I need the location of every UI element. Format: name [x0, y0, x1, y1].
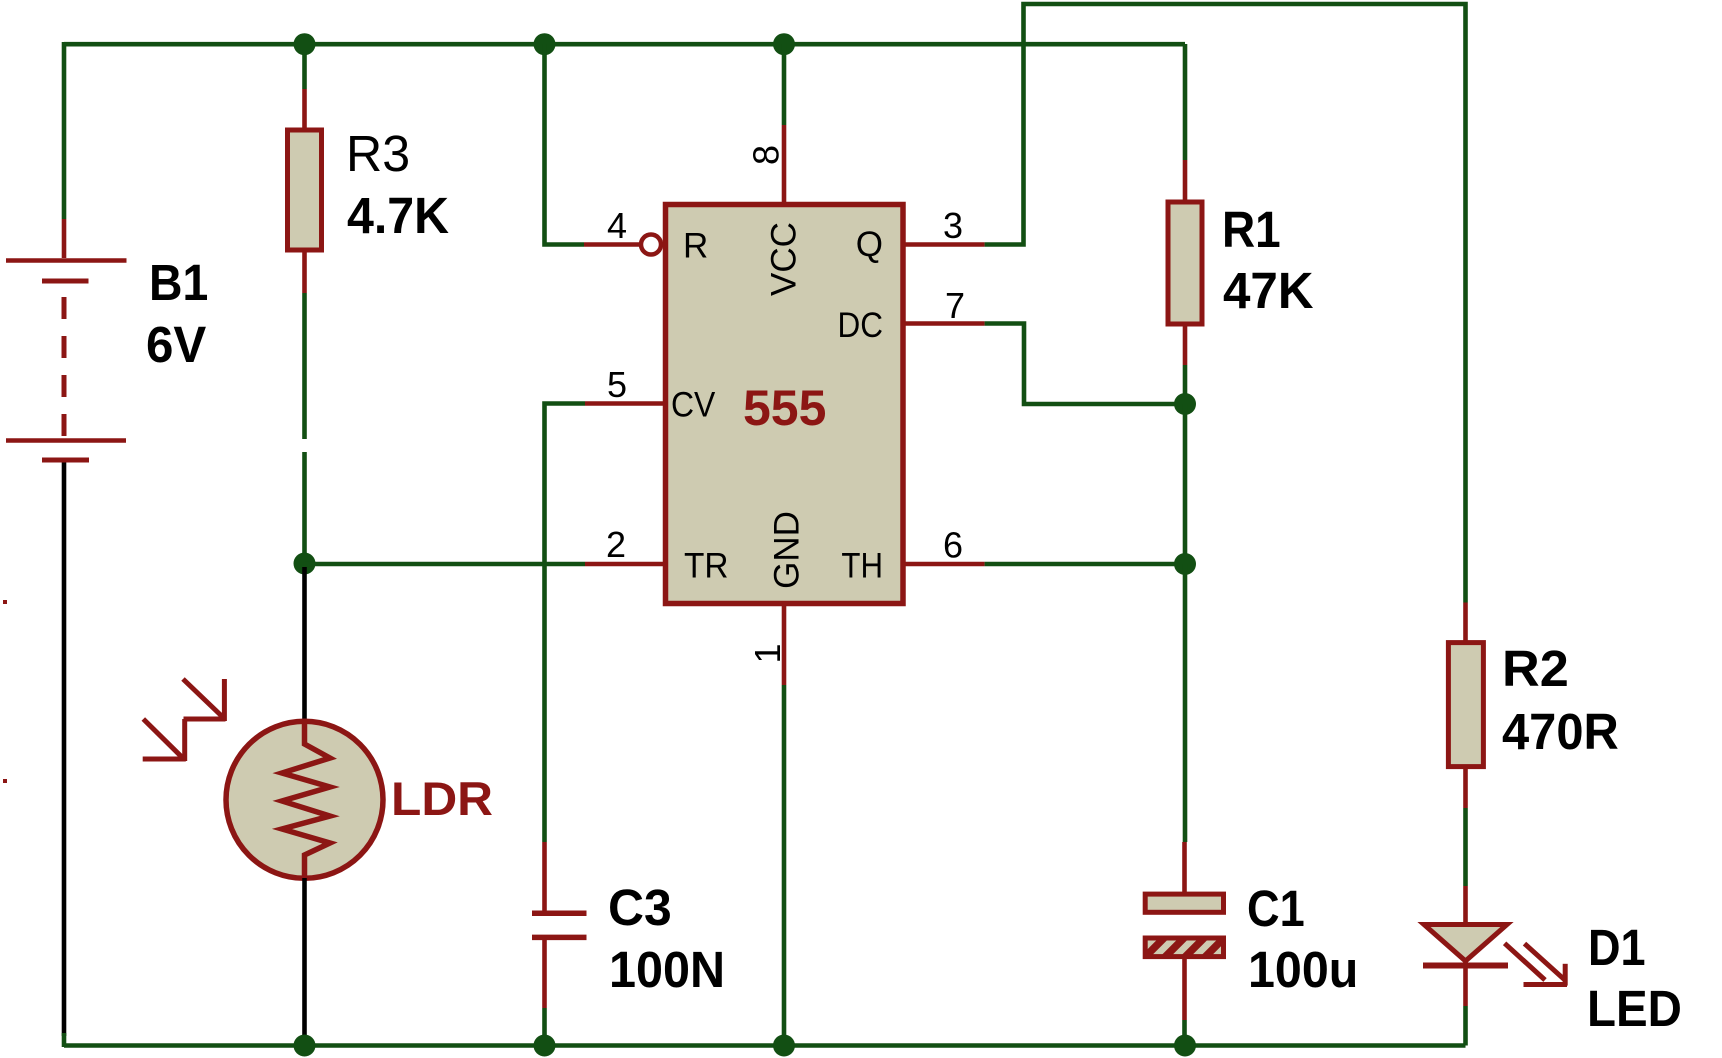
node DC junction — [1174, 393, 1196, 415]
pin name TR — [684, 547, 729, 586]
wire R3 top lead — [302, 44, 307, 130]
svg-text:VCC: VCC — [765, 222, 804, 296]
wire pin 4 (reset) — [545, 44, 643, 245]
node TR junction — [294, 553, 316, 575]
LED arrow 2 — [1525, 944, 1566, 986]
op-amp U1: 555 timer IC body — [666, 205, 904, 604]
label C1 — [1247, 880, 1305, 937]
label pin number 3 — [943, 205, 963, 246]
svg-text:R1: R1 — [1222, 201, 1281, 258]
label R2 — [1502, 640, 1569, 697]
pin name GND — [768, 511, 807, 589]
svg-text:3: 3 — [943, 205, 963, 246]
svg-text:555: 555 — [743, 380, 826, 436]
reset bubble — [641, 235, 661, 255]
svg-text:2: 2 — [606, 524, 626, 565]
wire pin 1 (GND) — [782, 604, 787, 1045]
wire LDR bottom lead (black) — [302, 878, 307, 1041]
label R1 — [1222, 201, 1281, 258]
LDR arrow 2 — [143, 719, 186, 761]
svg-text:R: R — [683, 227, 708, 266]
pin name VCC — [765, 222, 804, 296]
node top rail junction at R3 — [294, 33, 316, 55]
svg-text:470R: 470R — [1502, 703, 1619, 760]
label R3 — [346, 125, 410, 182]
label 47K — [1223, 262, 1314, 319]
resistor R2 — [1448, 643, 1483, 767]
svg-text:100N: 100N — [609, 941, 725, 998]
LDR arrow 1 — [183, 679, 226, 721]
svg-text:B1: B1 — [149, 254, 208, 311]
label pin number 7 — [945, 285, 965, 326]
wire pin 8 (VCC) — [782, 44, 787, 202]
svg-text:R3: R3 — [346, 125, 410, 182]
wire battery bottom lead (black) — [62, 463, 67, 1037]
wire TH node to C1 — [1183, 564, 1188, 842]
LDR photoresistor — [226, 721, 383, 878]
wire LDR top lead (black) — [302, 567, 307, 722]
svg-text:1: 1 — [747, 643, 788, 663]
svg-text:4: 4 — [607, 205, 627, 246]
label pin number 4 — [607, 205, 627, 246]
node bottom rail junction at C3 — [534, 1035, 556, 1057]
resistor R3 — [288, 130, 322, 250]
label pin number 2 — [606, 524, 626, 565]
pin name Q — [856, 225, 883, 264]
label 100u — [1248, 941, 1358, 998]
label pin number 8 — [746, 145, 787, 165]
pin name DC — [838, 306, 884, 345]
svg-text:TH: TH — [841, 547, 883, 586]
stray mark 1 — [3, 600, 7, 604]
label D1 — [1588, 919, 1646, 976]
pin name R — [683, 227, 708, 266]
wire pin 6 (TH) — [903, 562, 1185, 567]
LED D1 — [1423, 925, 1508, 1046]
svg-text:DC: DC — [838, 306, 884, 345]
label 470R — [1502, 703, 1619, 760]
svg-text:D1: D1 — [1588, 919, 1646, 976]
wire R1 top lead — [1183, 44, 1188, 202]
svg-text:LDR: LDR — [391, 772, 493, 825]
node TH junction — [1174, 553, 1196, 575]
label B1 — [149, 254, 208, 311]
node top rail junction at pin 8 — [773, 33, 795, 55]
svg-text:Q: Q — [856, 225, 883, 264]
resistor R1 — [1168, 202, 1202, 324]
wire R2 bottom lead — [1463, 767, 1468, 925]
svg-text:R2: R2 — [1502, 640, 1569, 697]
svg-text:100u: 100u — [1248, 941, 1358, 998]
label pin number 6 — [943, 525, 963, 566]
label 100N — [609, 941, 725, 998]
wire R3 bottom lead — [302, 250, 307, 562]
battery B1 — [6, 261, 127, 461]
svg-text:TR: TR — [684, 547, 729, 586]
wire battery top lead (maroon) — [62, 219, 67, 258]
label 555 — [743, 380, 826, 436]
svg-text:GND: GND — [768, 511, 807, 589]
wire top rail (VCC net, y=44) — [64, 42, 1185, 47]
svg-text:C1: C1 — [1247, 880, 1305, 937]
node top rail junction at pin4 riser — [534, 33, 556, 55]
wire CV branch (x=544.5 vertical to pin 5) — [545, 404, 664, 843]
wire DC node to TH node — [1183, 404, 1188, 564]
wire pin 3 (Q output) — [903, 4, 1466, 603]
svg-text:5: 5 — [607, 364, 627, 405]
svg-text:7: 7 — [945, 285, 965, 326]
wire pin 2 (TR) — [305, 562, 664, 567]
wire R2 top lead — [1463, 603, 1468, 643]
wire pin 7 (DC) — [903, 324, 1185, 405]
stray mark 2 — [3, 779, 7, 783]
svg-text:C3: C3 — [608, 879, 672, 936]
svg-text:8: 8 — [746, 145, 787, 165]
svg-text:LED: LED — [1587, 980, 1682, 1037]
svg-text:4.7K: 4.7K — [347, 187, 449, 244]
label pin number 5 — [607, 364, 627, 405]
wire R1 bottom lead — [1183, 324, 1188, 404]
svg-text:6V: 6V — [146, 316, 206, 373]
pin name TH — [841, 547, 883, 586]
wire bottom rail (GND net, y=1045.5) — [64, 1033, 1466, 1047]
capacitor C1 (electrolytic) — [1140, 842, 1248, 1045]
node bottom rail junction at pin 1 — [773, 1035, 795, 1057]
label 4.7K — [347, 187, 449, 244]
wire left battery riser (green) — [62, 42, 67, 219]
LED arrow 1 — [1505, 943, 1567, 984]
node bottom rail junction at LDR — [294, 1035, 316, 1057]
label LED — [1587, 980, 1682, 1037]
pin name CV — [671, 386, 716, 425]
label 6V — [146, 316, 206, 373]
label C3 — [608, 879, 672, 936]
capacitor C3 — [532, 842, 587, 1045]
svg-text:6: 6 — [943, 525, 963, 566]
svg-text:CV: CV — [671, 386, 716, 425]
label LDR — [391, 772, 493, 825]
label pin number 1 — [747, 643, 788, 663]
svg-text:47K: 47K — [1223, 262, 1314, 319]
node bottom rail junction at C1 — [1174, 1035, 1196, 1057]
